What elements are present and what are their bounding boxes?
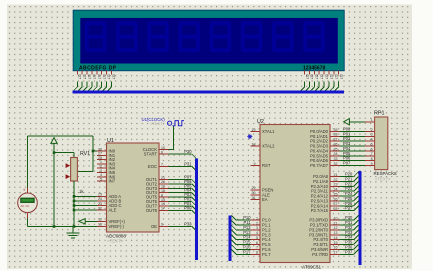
svg-text:4: 4: [371, 138, 373, 142]
svg-text:P37: P37: [345, 249, 353, 254]
svg-text:21: 21: [161, 176, 165, 180]
svg-text:2: 2: [371, 128, 373, 132]
svg-text:17: 17: [334, 251, 338, 255]
svg-text:5: 5: [100, 177, 102, 181]
svg-text:27: 27: [334, 202, 338, 206]
svg-text:17: 17: [161, 207, 165, 211]
svg-text:U2: U2: [257, 119, 264, 125]
svg-text:EOC: EOC: [148, 164, 157, 169]
svg-text:D7: D7: [305, 75, 309, 80]
svg-text:P17: P17: [243, 249, 251, 254]
svg-text:7: 7: [161, 163, 163, 167]
svg-text:D7: D7: [319, 75, 323, 80]
svg-text:9: 9: [254, 162, 256, 166]
svg-text:P07: P07: [343, 161, 351, 166]
svg-text:18: 18: [161, 189, 165, 193]
svg-text:1: 1: [371, 118, 373, 122]
svg-text:9: 9: [161, 223, 163, 227]
svg-text:30: 30: [252, 191, 256, 195]
svg-text:37: 37: [334, 138, 338, 142]
svg-text:3: 3: [256, 226, 258, 230]
svg-text:RV1: RV1: [80, 151, 90, 157]
svg-text:4: 4: [256, 231, 258, 235]
svg-text:23: 23: [334, 183, 338, 187]
svg-text:OE: OE: [151, 224, 157, 229]
svg-text:9: 9: [371, 162, 373, 166]
svg-text:20: 20: [161, 180, 165, 184]
svg-text:+: +: [23, 188, 26, 193]
svg-text:5: 5: [256, 236, 258, 240]
svg-text:D7: D7: [334, 75, 338, 80]
svg-text:35: 35: [334, 147, 338, 151]
svg-text:38: 38: [334, 133, 338, 137]
svg-text:29: 29: [252, 186, 256, 190]
svg-text:D7: D7: [339, 75, 343, 80]
svg-text:13: 13: [334, 231, 338, 235]
svg-text:U1: U1: [107, 138, 114, 144]
svg-text:D7: D7: [92, 75, 96, 80]
svg-text:RST: RST: [262, 163, 271, 168]
svg-text:22: 22: [334, 178, 338, 182]
svg-text:5: 5: [371, 142, 373, 146]
svg-text:12: 12: [98, 218, 102, 222]
svg-text:OUT8: OUT8: [146, 208, 158, 213]
svg-text:25: 25: [334, 192, 338, 196]
svg-text:8: 8: [371, 157, 373, 161]
svg-text:10: 10: [334, 217, 338, 221]
svg-text:12: 12: [334, 226, 338, 230]
svg-text:14: 14: [161, 202, 165, 206]
svg-text:34: 34: [334, 152, 338, 156]
svg-text:D7: D7: [97, 75, 101, 80]
svg-text:D7: D7: [315, 75, 319, 80]
svg-text:P33: P33: [184, 221, 192, 226]
svg-text:IN7: IN7: [109, 179, 116, 184]
svg-text:7: 7: [371, 152, 373, 156]
svg-text:AT89C51: AT89C51: [302, 265, 322, 270]
svg-text:D7: D7: [329, 75, 333, 80]
svg-text:23: 23: [98, 202, 102, 206]
svg-text:EA: EA: [262, 197, 268, 202]
svg-text:19: 19: [252, 128, 256, 132]
svg-text:33: 33: [334, 157, 338, 161]
svg-text:D7: D7: [107, 75, 111, 80]
svg-text:D7: D7: [324, 75, 328, 80]
svg-text:<TEXT>: <TEXT>: [107, 239, 124, 244]
svg-text:26: 26: [334, 197, 338, 201]
svg-text:VREF(-): VREF(-): [109, 224, 125, 229]
svg-text:P27: P27: [345, 206, 353, 211]
svg-text:RP1: RP1: [374, 111, 385, 117]
svg-text:XTAL2: XTAL2: [262, 144, 275, 149]
svg-text:P2.7/A15: P2.7/A15: [311, 208, 329, 213]
svg-text:7: 7: [256, 246, 258, 250]
svg-text:6: 6: [371, 147, 373, 151]
svg-text:XTAL1: XTAL1: [262, 129, 275, 134]
svg-text:P00: P00: [184, 205, 192, 210]
svg-text:16: 16: [98, 223, 102, 227]
svg-text:P3.7/RD: P3.7/RD: [312, 252, 328, 257]
svg-text:21: 21: [334, 173, 338, 177]
svg-text:1: 1: [256, 217, 258, 221]
svg-text:D7: D7: [78, 75, 82, 80]
svg-text:2: 2: [256, 221, 258, 225]
svg-text:14: 14: [334, 236, 338, 240]
svg-text:ABCDEFG DP: ABCDEFG DP: [79, 65, 117, 71]
svg-text:16: 16: [334, 246, 338, 250]
svg-text:28: 28: [334, 207, 338, 211]
svg-text:D7: D7: [310, 75, 314, 80]
svg-text:ALE: ALE: [109, 208, 117, 213]
svg-text:11: 11: [334, 221, 338, 225]
svg-text:<TEXT>: <TEXT>: [375, 176, 391, 181]
svg-text:P31: P31: [184, 161, 192, 166]
svg-text:P1.7: P1.7: [262, 252, 271, 257]
svg-text:19: 19: [161, 185, 165, 189]
svg-text:-: -: [24, 214, 26, 220]
svg-text:6: 6: [256, 241, 258, 245]
svg-text:6: 6: [161, 150, 163, 154]
svg-text:24: 24: [334, 188, 338, 192]
svg-text:22: 22: [98, 206, 102, 210]
svg-text:AC mV: AC mV: [21, 204, 30, 208]
svg-text:32: 32: [334, 162, 338, 166]
svg-text:D7: D7: [102, 75, 106, 80]
svg-text:8: 8: [161, 193, 163, 197]
svg-text:P30: P30: [184, 149, 192, 154]
svg-text:24: 24: [98, 197, 102, 201]
svg-text:31: 31: [252, 196, 256, 200]
svg-text:D7: D7: [82, 75, 86, 80]
svg-text:START: START: [144, 152, 158, 157]
svg-text:<TEXT>: <TEXT>: [150, 121, 166, 126]
svg-text:10: 10: [161, 146, 165, 150]
svg-text:36: 36: [334, 142, 338, 146]
svg-text:15: 15: [161, 198, 165, 202]
svg-text:12345678: 12345678: [303, 65, 325, 71]
svg-text:RESPACK8: RESPACK8: [374, 171, 398, 176]
svg-text:3: 3: [371, 133, 373, 137]
svg-text:P0.7/AD7: P0.7/AD7: [310, 163, 329, 168]
svg-text:18: 18: [252, 142, 256, 146]
svg-text:15: 15: [334, 241, 338, 245]
svg-text:D7: D7: [112, 75, 116, 80]
svg-text:8: 8: [256, 251, 258, 255]
svg-text:D7: D7: [87, 75, 91, 80]
svg-text:25: 25: [98, 193, 102, 197]
svg-text:39: 39: [334, 128, 338, 132]
